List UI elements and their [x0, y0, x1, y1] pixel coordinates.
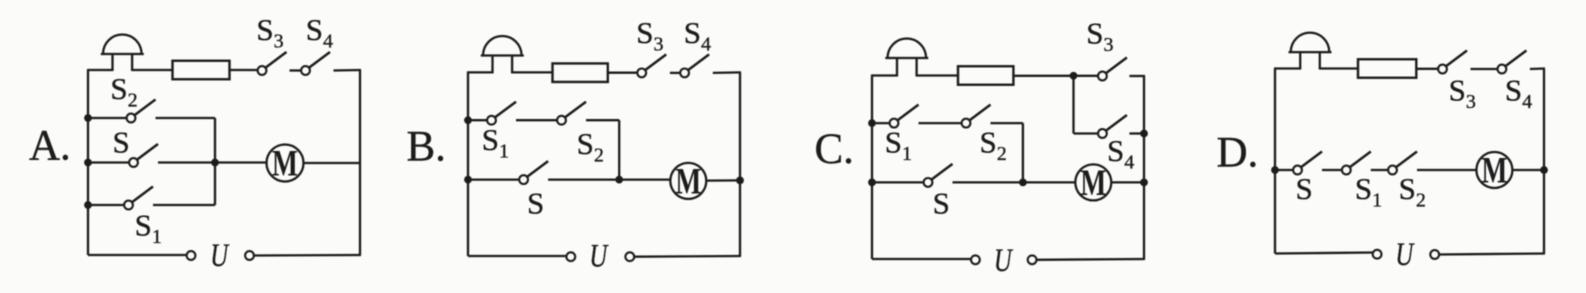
- svg-text:M: M: [675, 161, 701, 202]
- svg-text:B.: B.: [407, 124, 446, 171]
- svg-text:U: U: [994, 243, 1014, 279]
- svg-text:M: M: [1481, 150, 1507, 191]
- svg-text:S: S: [113, 124, 130, 159]
- svg-text:C.: C.: [815, 126, 854, 173]
- svg-text:U: U: [589, 238, 609, 274]
- svg-text:U: U: [210, 238, 230, 274]
- svg-text:M: M: [1080, 162, 1106, 203]
- svg-text:D.: D.: [1217, 130, 1259, 177]
- svg-text:S: S: [933, 186, 950, 221]
- svg-text:M: M: [272, 143, 298, 184]
- svg-text:U: U: [1395, 237, 1415, 273]
- svg-text:S: S: [527, 186, 544, 221]
- svg-text:A.: A.: [29, 123, 71, 170]
- svg-text:S: S: [1296, 171, 1313, 206]
